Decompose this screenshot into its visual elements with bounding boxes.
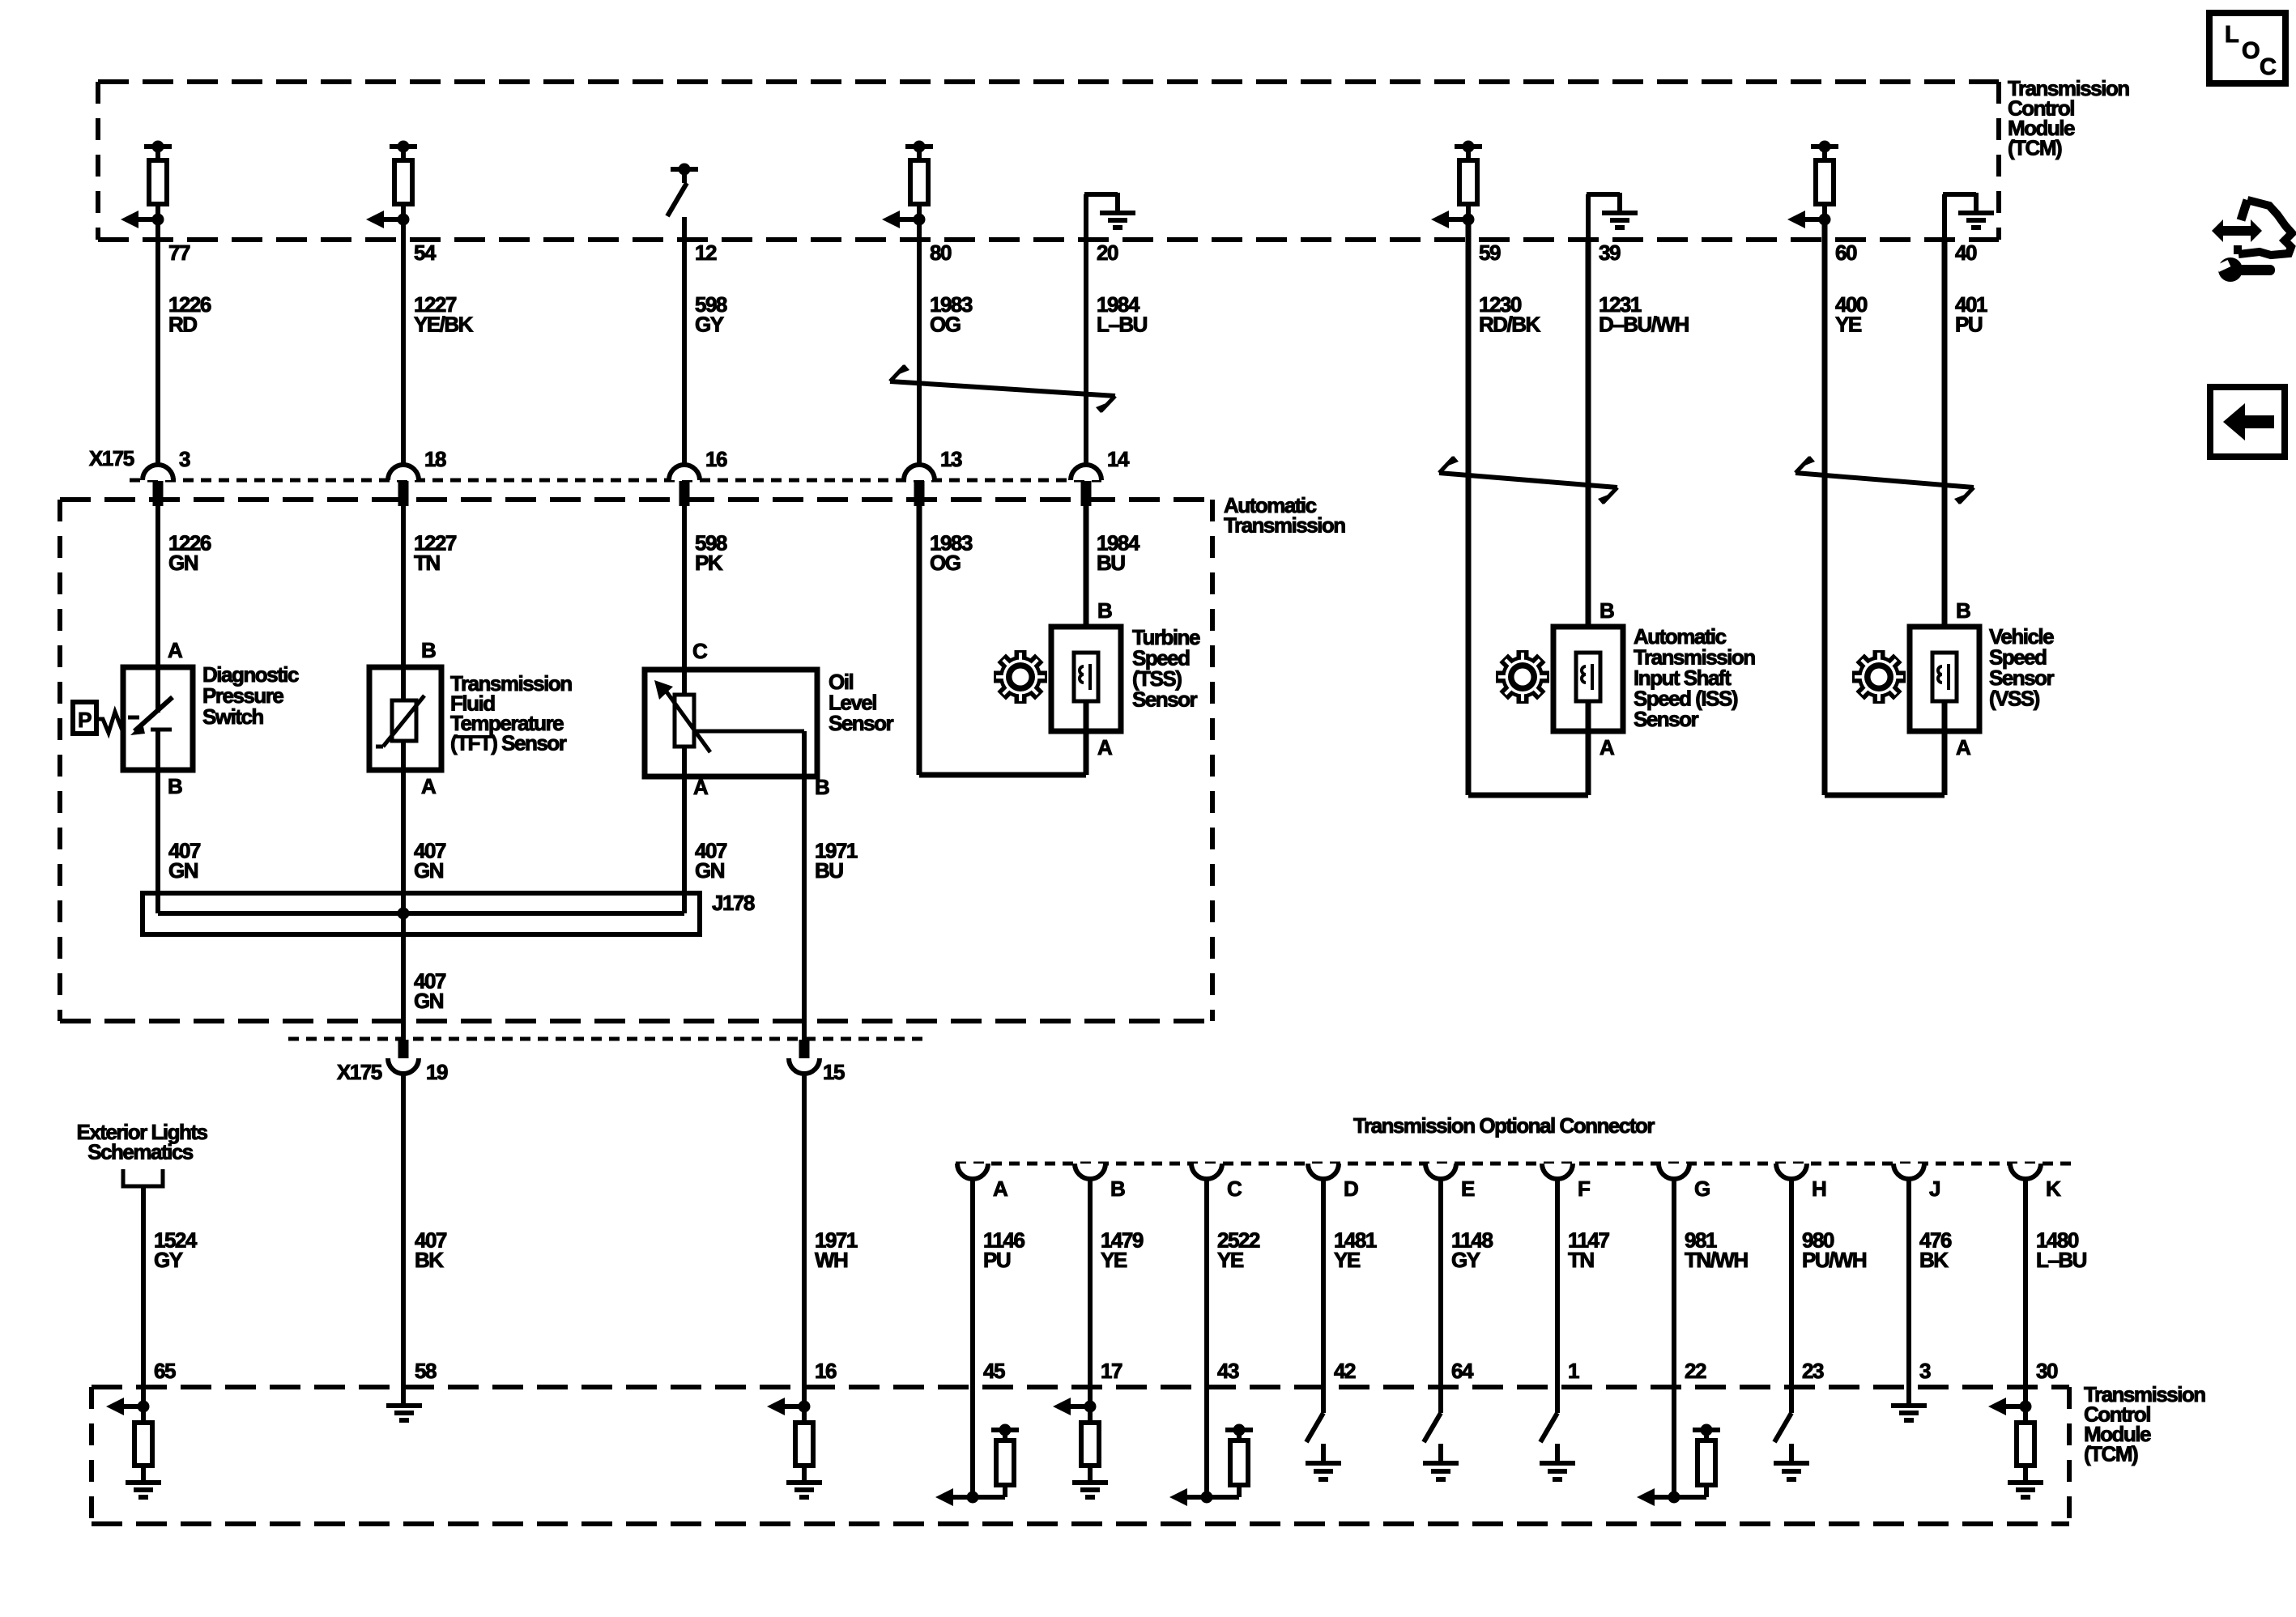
svg-text:22: 22 — [1685, 1359, 1706, 1383]
svg-text:H: H — [1812, 1177, 1826, 1201]
svg-text:X175: X175 — [89, 446, 134, 470]
svg-text:YE: YE — [1835, 313, 1862, 337]
svg-text:O: O — [2242, 38, 2260, 64]
svg-text:YE: YE — [1217, 1248, 1244, 1272]
svg-text:16: 16 — [705, 447, 727, 471]
svg-text:BK: BK — [1919, 1248, 1949, 1272]
svg-text:WH: WH — [815, 1248, 848, 1272]
svg-text:RD: RD — [168, 313, 197, 337]
svg-text:43: 43 — [1217, 1359, 1239, 1383]
svg-text:77: 77 — [168, 240, 190, 265]
svg-text:BU: BU — [1097, 551, 1125, 575]
svg-text:L: L — [2225, 22, 2238, 48]
svg-text:16: 16 — [815, 1359, 837, 1383]
svg-text:TN: TN — [414, 551, 440, 575]
svg-text:60: 60 — [1835, 240, 1857, 265]
svg-text:17: 17 — [1101, 1359, 1122, 1383]
svg-text:YE/BK: YE/BK — [414, 313, 474, 337]
svg-text:3: 3 — [1919, 1359, 1931, 1383]
svg-text:80: 80 — [930, 240, 952, 265]
svg-text:Transmission Optional Connecto: Transmission Optional Connector — [1353, 1113, 1655, 1138]
svg-text:D–BU/WH: D–BU/WH — [1599, 313, 1689, 337]
svg-text:L–BU: L–BU — [1097, 313, 1148, 337]
svg-text:42: 42 — [1334, 1359, 1356, 1383]
svg-text:39: 39 — [1599, 240, 1621, 265]
svg-text:A: A — [1600, 735, 1615, 760]
svg-text:18: 18 — [424, 447, 446, 471]
svg-text:B: B — [421, 638, 436, 662]
svg-text:PU/WH: PU/WH — [1802, 1248, 1867, 1272]
svg-text:Sensor: Sensor — [829, 711, 894, 735]
svg-text:D: D — [1344, 1177, 1358, 1201]
svg-text:GY: GY — [1451, 1248, 1480, 1272]
svg-text:A: A — [1956, 735, 1971, 760]
svg-text:(VSS): (VSS) — [1989, 687, 2040, 711]
svg-text:G: G — [1694, 1177, 1710, 1201]
svg-text:58: 58 — [415, 1359, 437, 1383]
svg-text:Transmission: Transmission — [1224, 513, 1345, 538]
svg-text:A: A — [1097, 735, 1113, 760]
svg-text:BK: BK — [415, 1248, 444, 1272]
svg-text:TN: TN — [1568, 1248, 1594, 1272]
svg-text:PK: PK — [695, 551, 723, 575]
svg-text:3: 3 — [179, 447, 190, 471]
svg-text:GY: GY — [154, 1248, 183, 1272]
svg-text:65: 65 — [154, 1359, 176, 1383]
svg-text:E: E — [1461, 1177, 1475, 1201]
svg-text:30: 30 — [2036, 1359, 2058, 1383]
svg-text:(TCM): (TCM) — [2084, 1442, 2138, 1466]
svg-text:BU: BU — [815, 858, 843, 883]
svg-text:YE: YE — [1334, 1248, 1361, 1272]
svg-text:GN: GN — [414, 858, 444, 883]
svg-text:A: A — [693, 775, 709, 799]
svg-text:B: B — [1956, 598, 1970, 623]
svg-text:K: K — [2046, 1177, 2061, 1201]
svg-text:54: 54 — [414, 240, 437, 265]
svg-text:B: B — [1097, 598, 1112, 623]
svg-text:L–BU: L–BU — [2036, 1248, 2087, 1272]
svg-text:B: B — [1110, 1177, 1125, 1201]
svg-text:20: 20 — [1097, 240, 1118, 265]
svg-text:GN: GN — [695, 858, 725, 883]
svg-text:Switch: Switch — [202, 704, 263, 729]
svg-text:1: 1 — [1568, 1359, 1579, 1383]
svg-text:(TCM): (TCM) — [2008, 136, 2062, 160]
svg-text:OG: OG — [930, 313, 961, 337]
svg-text:YE: YE — [1101, 1248, 1127, 1272]
svg-text:C: C — [692, 639, 708, 663]
svg-text:A: A — [168, 638, 183, 662]
svg-text:64: 64 — [1451, 1359, 1474, 1383]
svg-text:F: F — [1578, 1177, 1590, 1201]
svg-text:PU: PU — [1955, 313, 1983, 337]
svg-text:GN: GN — [168, 858, 198, 883]
svg-text:45: 45 — [983, 1359, 1005, 1383]
svg-text:P: P — [78, 708, 92, 732]
svg-text:Schematics: Schematics — [87, 1140, 194, 1164]
svg-text:A: A — [421, 774, 437, 798]
svg-text:C: C — [1227, 1177, 1242, 1201]
svg-text:GN: GN — [414, 989, 444, 1013]
svg-text:GN: GN — [168, 551, 198, 575]
svg-text:12: 12 — [695, 240, 717, 265]
svg-text:B: B — [168, 774, 182, 798]
svg-text:RD/BK: RD/BK — [1479, 313, 1541, 337]
svg-text:OG: OG — [930, 551, 961, 575]
svg-text:15: 15 — [823, 1060, 845, 1084]
svg-text:23: 23 — [1802, 1359, 1824, 1383]
svg-text:TN/WH: TN/WH — [1685, 1248, 1748, 1272]
svg-text:PU: PU — [983, 1248, 1011, 1272]
svg-text:Sensor: Sensor — [1634, 707, 1699, 731]
svg-text:(TFT) Sensor: (TFT) Sensor — [450, 731, 567, 755]
svg-text:J: J — [1929, 1177, 1940, 1201]
svg-text:Sensor: Sensor — [1132, 687, 1198, 712]
svg-text:X175: X175 — [337, 1060, 382, 1084]
svg-text:B: B — [815, 775, 829, 799]
svg-text:GY: GY — [695, 313, 724, 337]
svg-text:13: 13 — [940, 447, 962, 471]
svg-text:40: 40 — [1955, 240, 1977, 265]
svg-text:C: C — [2260, 54, 2277, 80]
svg-text:A: A — [993, 1177, 1008, 1201]
svg-text:B: B — [1600, 598, 1614, 623]
svg-text:14: 14 — [1107, 447, 1130, 471]
svg-text:J178: J178 — [712, 891, 755, 915]
svg-text:19: 19 — [426, 1060, 448, 1084]
svg-text:59: 59 — [1479, 240, 1501, 265]
